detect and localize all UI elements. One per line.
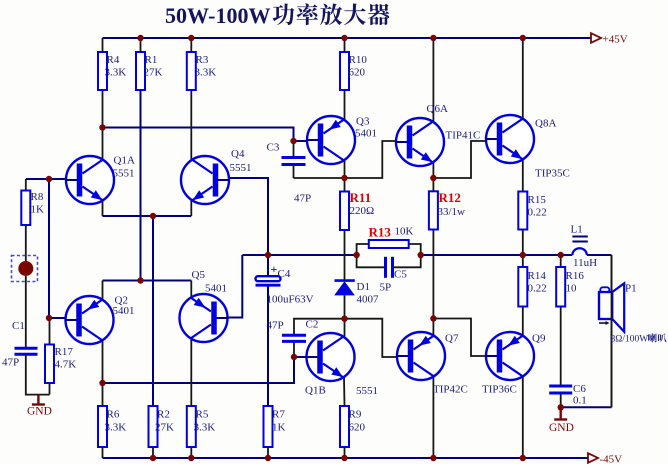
- resistor R11: [340, 192, 349, 231]
- wire R1 tail column: [140, 90, 142, 281]
- junction VAS bottom node: [341, 316, 347, 322]
- capacitor C1: [15, 348, 38, 354]
- wire input terminal to C1: [25, 276, 27, 348]
- svg-text:27K: 27K: [155, 422, 174, 434]
- junction Q6A emitter: [430, 175, 436, 181]
- wire R16 top stem: [560, 255, 562, 267]
- wire Q1A collector stub: [102, 128, 104, 160]
- wire Q1A emitter stub: [102, 201, 104, 217]
- +45V terminal: [591, 33, 601, 43]
- wire R12 top stub: [432, 178, 434, 191]
- svg-text:8Ω/100W: 8Ω/100W: [611, 335, 649, 345]
- svg-text:11uH: 11uH: [573, 257, 597, 269]
- svg-text:TIP36C: TIP36C: [482, 384, 517, 396]
- svg-text:3.3K: 3.3K: [105, 67, 127, 79]
- svg-text:R2: R2: [157, 409, 170, 421]
- svg-text:R7: R7: [272, 409, 285, 421]
- svg-text:R17: R17: [55, 346, 74, 358]
- svg-text:0.22: 0.22: [528, 283, 547, 295]
- wire -45V bottom rail: [103, 457, 589, 459]
- svg-text:C3: C3: [267, 142, 280, 154]
- svg-text:Q1B: Q1B: [305, 385, 326, 397]
- wire Q1A base line: [26, 178, 67, 180]
- transistor Q6A: [396, 118, 444, 166]
- wire output node to R14: [522, 255, 524, 267]
- resistor R3: [187, 52, 196, 90]
- svg-text:R11: R11: [350, 190, 372, 205]
- transistor Q3: [307, 116, 355, 164]
- svg-text:C5: C5: [394, 269, 407, 281]
- wire Q2-Q5 emitter line: [103, 280, 192, 282]
- svg-text:GND: GND: [27, 406, 52, 418]
- wire R16 to C6: [560, 307, 562, 387]
- wire Q5 emitter stub: [190, 281, 192, 298]
- svg-text:R3: R3: [196, 54, 209, 66]
- svg-text:Q7: Q7: [445, 333, 459, 345]
- wire Q8A collector stub: [522, 38, 524, 119]
- svg-text:5P: 5P: [380, 282, 392, 294]
- wire Q3 emitter stub: [344, 161, 346, 179]
- wire C6 bottom stem: [560, 393, 562, 407]
- svg-text:R12: R12: [439, 190, 461, 205]
- svg-text:27K: 27K: [144, 67, 163, 79]
- resistor R9: [340, 406, 349, 447]
- svg-text:47P: 47P: [294, 193, 311, 205]
- resistor R15: [518, 192, 527, 230]
- ground symbol left: [32, 395, 45, 405]
- wire Q1A-Q4 emitter line: [103, 215, 192, 217]
- wire D1 to VAS node: [344, 295, 346, 319]
- junction C3 node: [290, 138, 296, 144]
- svg-text:TIP35C: TIP35C: [535, 168, 570, 180]
- junction Q2 collector feedback: [99, 380, 105, 386]
- svg-text:+45V: +45V: [603, 34, 628, 46]
- resistor R14: [518, 267, 527, 307]
- junction dots bottom rail: [150, 455, 156, 461]
- svg-text:Q4: Q4: [231, 148, 245, 160]
- svg-text:0.1: 0.1: [573, 395, 587, 407]
- resistor R2: [149, 406, 158, 447]
- wire Q1B collector stub: [344, 319, 346, 337]
- svg-text:220Ω: 220Ω: [350, 205, 375, 217]
- wire C1 bottom to ground line: [26, 354, 50, 394]
- svg-text:+: +: [271, 262, 278, 276]
- svg-text:C4: C4: [278, 268, 291, 280]
- resistor R10: [340, 52, 349, 90]
- transistor Q9: [486, 332, 534, 380]
- svg-text:100uF63V: 100uF63V: [267, 294, 314, 306]
- wire R10 stems: [344, 38, 346, 120]
- wire Q4 emitter stub: [190, 201, 192, 217]
- junction R17 node: [46, 315, 52, 321]
- wire bottom resistor stems: [103, 383, 345, 458]
- svg-text:R6: R6: [107, 409, 120, 421]
- svg-text:5551: 5551: [113, 168, 135, 180]
- svg-text:620: 620: [349, 422, 366, 434]
- resistor R13: [369, 240, 409, 248]
- svg-text:Q9: Q9: [532, 333, 546, 345]
- wire mid output line left: [242, 254, 356, 256]
- svg-text:R8: R8: [31, 191, 44, 203]
- wire R1 top stem: [140, 38, 142, 52]
- svg-text:D1: D1: [357, 281, 370, 293]
- svg-text:47P: 47P: [267, 320, 284, 332]
- transistor Q1B: [307, 333, 355, 381]
- junction Q3 collector: [341, 175, 347, 181]
- wire second rail to Q3 base: [103, 128, 308, 142]
- svg-text:R1: R1: [145, 54, 158, 66]
- transistor Q2: [66, 296, 114, 344]
- wire VAS node to Q7 base: [294, 319, 397, 357]
- resistor R17: [45, 345, 54, 384]
- svg-text:33/1w: 33/1w: [438, 206, 466, 218]
- svg-text:C6: C6: [573, 383, 586, 395]
- svg-text:R10: R10: [349, 54, 368, 66]
- capacitor C6: [549, 386, 572, 393]
- wire output line after L1: [587, 254, 612, 256]
- wire C4 bottom to R7: [267, 286, 269, 406]
- svg-text:R13: R13: [369, 225, 392, 240]
- svg-text:5401: 5401: [355, 128, 377, 140]
- wire R8 top stub: [25, 179, 27, 191]
- svg-text:1K: 1K: [31, 204, 45, 216]
- svg-text:Q3: Q3: [356, 116, 370, 128]
- svg-text:4007: 4007: [357, 294, 380, 306]
- junction Q7 emitter node: [430, 315, 436, 321]
- wire mid output line right: [421, 254, 573, 256]
- svg-text:47P: 47P: [2, 357, 19, 369]
- svg-text:TIP42C: TIP42C: [433, 384, 468, 396]
- wire feedback line: [103, 357, 307, 383]
- wire Q7 emitter stub: [432, 319, 434, 336]
- svg-text:R14: R14: [528, 270, 547, 282]
- svg-text:1K: 1K: [272, 422, 286, 434]
- svg-text:5551: 5551: [356, 385, 378, 397]
- svg-text:C2: C2: [306, 319, 319, 331]
- resistor R16: [556, 267, 565, 307]
- resistor R5: [187, 406, 196, 447]
- resistor R1: [136, 52, 145, 90]
- -45V terminal: [588, 453, 598, 463]
- wire C2 bottom stem: [293, 341, 295, 357]
- wire Q5 collector to R5: [190, 339, 192, 407]
- junction C6 ground node: [558, 404, 564, 410]
- svg-text:0.22: 0.22: [528, 207, 547, 219]
- svg-text:L1: L1: [571, 224, 583, 236]
- inductor L1: [572, 248, 586, 255]
- svg-text:R4: R4: [107, 54, 120, 66]
- svg-text:Q8A: Q8A: [535, 118, 556, 130]
- junction input top: [46, 176, 52, 182]
- input terminal: [12, 256, 38, 282]
- wire R11 top stub: [344, 178, 346, 192]
- transistor Q7: [397, 332, 445, 380]
- wire speaker column: [611, 255, 613, 407]
- svg-text:4.7K: 4.7K: [55, 359, 77, 371]
- wire +45V top rail: [103, 37, 592, 39]
- junction R1 tap: [137, 277, 143, 283]
- wire Q9 collector stub: [522, 377, 524, 459]
- wire C3 node stems: [293, 141, 295, 178]
- svg-text:5401: 5401: [113, 305, 135, 317]
- svg-text:3.3K: 3.3K: [194, 422, 216, 434]
- svg-text:TIP41C: TIP41C: [446, 130, 481, 142]
- resistor R7: [264, 406, 273, 447]
- wire R13 C5 bridge loop: [357, 244, 421, 267]
- svg-text:50W-100W: 50W-100W: [165, 3, 271, 28]
- diode D1: [335, 279, 355, 282]
- transistor Q1A: [66, 156, 114, 204]
- svg-text:Q1A: Q1A: [114, 155, 135, 167]
- resistor R8: [21, 191, 30, 226]
- ground symbol right: [554, 407, 567, 419]
- svg-text:10: 10: [566, 283, 578, 295]
- transistor Q4: [181, 156, 229, 204]
- junction dots output line: [265, 252, 271, 258]
- wire input column: [48, 179, 50, 318]
- wire R17 stems: [49, 318, 51, 395]
- speaker P1: [600, 287, 609, 292]
- resistor R12: [429, 191, 438, 229]
- svg-text:R16: R16: [566, 270, 585, 282]
- wire R8 to input terminal: [25, 225, 27, 261]
- wire Q7 emitter node to Q9 base: [433, 319, 486, 357]
- capacitor C2: [282, 335, 306, 341]
- svg-text:C1: C1: [12, 320, 25, 332]
- junction Q1B base node: [291, 354, 297, 360]
- svg-text:5401: 5401: [205, 283, 227, 295]
- wire Q1B emitter to R9: [343, 378, 346, 407]
- wire C6 to speaker: [561, 406, 612, 408]
- svg-text:P1: P1: [625, 283, 637, 295]
- resistor R4: [98, 52, 107, 90]
- svg-text:R5: R5: [196, 409, 209, 421]
- svg-text:Q6A: Q6A: [427, 103, 448, 115]
- wire R2 tail column: [152, 216, 154, 406]
- capacitor C3: [282, 158, 306, 165]
- wire Q3 collector line to Q6A base: [294, 141, 397, 178]
- wire Q4 base jog: [229, 178, 268, 276]
- wire R4 stems: [102, 38, 104, 128]
- wire Q2 emitter stub: [102, 281, 104, 300]
- svg-text:5551: 5551: [230, 162, 252, 174]
- transistor Q8A: [486, 115, 534, 163]
- svg-text:-45V: -45V: [600, 454, 623, 465]
- capacitor C4 electrolytic: [256, 276, 281, 281]
- wire Q6A emitter to Q8A base: [433, 141, 486, 178]
- svg-text:3.3K: 3.3K: [195, 67, 217, 79]
- svg-text:GND: GND: [549, 422, 574, 434]
- transistor Q5: [180, 294, 228, 342]
- wire Q8A emitter to R15: [522, 160, 524, 192]
- wire R11 to D1: [344, 230, 346, 280]
- svg-text:620: 620: [349, 67, 366, 79]
- wire R3 stems: [190, 38, 192, 160]
- junction dots top rail: [137, 35, 143, 41]
- resistor R6: [98, 406, 107, 447]
- svg-text:10K: 10K: [395, 226, 414, 238]
- junction second rail left: [99, 124, 105, 130]
- wire Q5 base jog: [228, 255, 243, 318]
- svg-text:R9: R9: [349, 409, 362, 421]
- wire Q2 collector stub: [102, 341, 104, 384]
- wire R14 to Q9 emitter: [522, 307, 524, 336]
- junction R2 tap: [150, 213, 156, 219]
- wire Q6A collector stub: [432, 38, 434, 122]
- wire Q2 base: [49, 317, 66, 319]
- svg-text:R15: R15: [528, 194, 547, 206]
- wire Q7 collector stub: [432, 377, 434, 459]
- wire R15 to output node: [522, 230, 524, 256]
- wire R12 bottom to Q7 emitter node: [432, 230, 434, 319]
- svg-text:Q5: Q5: [192, 269, 206, 281]
- svg-text:3.3K: 3.3K: [105, 422, 127, 434]
- capacitor C5: [386, 257, 393, 278]
